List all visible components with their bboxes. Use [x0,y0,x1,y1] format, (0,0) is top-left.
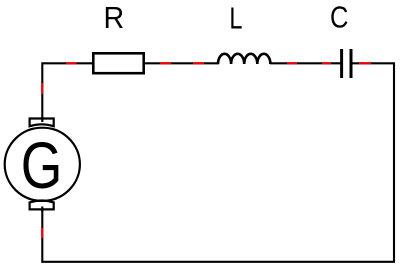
red current dash on left wire upper [41,83,43,94]
wire bottom [42,211,395,262]
wire capacitor to top-right corner [352,63,394,262]
generator bottom brush terminal [30,201,54,210]
generator G circle [5,128,80,201]
red current dash after capacitor [359,62,371,64]
red current dash top wire before resistor [66,62,77,64]
svg-text:G: G [21,128,63,202]
red current dash after inductor 1 [287,62,297,64]
generator top brush terminal [30,119,54,127]
generator wire stub top [41,117,43,122]
capacitor C left plate [340,49,343,78]
resistor R [93,53,143,73]
wire top-left segment (corner to resistor) [42,63,92,117]
inductor L [218,54,270,64]
capacitor C right plate [350,49,353,78]
red current dash after inductor 2 [322,62,331,64]
red current dash on left wire lower [41,228,43,238]
svg-text:R: R [103,1,124,35]
wire inductor to capacitor [270,62,341,64]
svg-text:L: L [229,2,242,36]
wire resistor to inductor [145,62,219,64]
red current dash after resistor 1 [160,62,172,64]
svg-text:C: C [330,1,348,35]
red current dash after resistor 2 [193,62,204,64]
generator wire stub bottom [41,207,43,213]
